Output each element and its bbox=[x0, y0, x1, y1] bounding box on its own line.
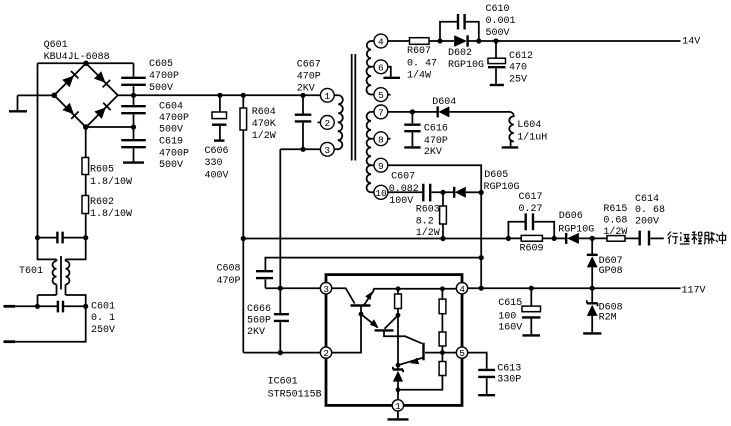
diode D605 bbox=[453, 187, 455, 198]
capacitor C667 bbox=[302, 95, 304, 113]
ground under pin1 bbox=[397, 411, 399, 418]
svg-text:C612: C612 bbox=[509, 51, 533, 62]
wire rail y238 bbox=[243, 238, 508, 240]
ground at pin 6 bbox=[388, 67, 391, 77]
svg-text:470: 470 bbox=[509, 63, 527, 74]
node C616 bbox=[410, 109, 415, 114]
diode D602 bbox=[454, 35, 467, 46]
svg-text:3: 3 bbox=[323, 284, 329, 295]
svg-text:C667: C667 bbox=[297, 60, 321, 71]
node D605 right bbox=[479, 190, 484, 195]
node C667 bottom bbox=[300, 147, 305, 152]
T601 core line bbox=[60, 256, 62, 290]
wire R615 to C614 bbox=[625, 237, 639, 239]
wire pin7 line bbox=[388, 111, 438, 113]
wire D602 to node bbox=[468, 40, 496, 42]
svg-text:L604: L604 bbox=[517, 120, 541, 131]
bridge rectifier Q601 frame bbox=[54, 63, 118, 127]
transistor Q1 bbox=[332, 288, 355, 303]
svg-text:C666: C666 bbox=[247, 304, 271, 315]
pin 5 bbox=[456, 347, 467, 358]
diode D606 bbox=[565, 233, 567, 244]
svg-text:2KV: 2KV bbox=[247, 327, 265, 338]
svg-text:Q601: Q601 bbox=[44, 40, 68, 51]
glyph 程 bbox=[692, 232, 703, 244]
svg-text:C619: C619 bbox=[159, 137, 183, 148]
capacitor C608 bbox=[256, 271, 273, 278]
svg-text:RGP10G: RGP10G bbox=[484, 182, 520, 193]
transistor Q2 bbox=[375, 329, 394, 331]
capacitor C619 bbox=[133, 127, 135, 139]
transformer secondary winding 7-8-9-10 bbox=[367, 112, 375, 139]
IC resistors Rb chain bbox=[441, 289, 443, 299]
wire pin9 line bbox=[388, 165, 482, 192]
svg-text:2: 2 bbox=[323, 348, 329, 359]
node C605/C604 bbox=[131, 93, 136, 98]
inductor L604 bbox=[509, 112, 514, 146]
pin 2 bbox=[318, 121, 321, 123]
resistor R604 bbox=[242, 95, 244, 108]
capacitor C607 bbox=[423, 184, 430, 202]
wire R609 to D606 bbox=[554, 237, 566, 239]
svg-text:R603: R603 bbox=[416, 204, 440, 215]
svg-text:4700P: 4700P bbox=[159, 113, 189, 124]
resistor R615 bbox=[607, 236, 625, 242]
svg-text:1/1uH: 1/1uH bbox=[517, 132, 547, 144]
wire bridge bottom to R605 bbox=[85, 127, 87, 158]
svg-text:R604: R604 bbox=[252, 107, 276, 118]
wire 117V rail bbox=[468, 287, 681, 289]
transistor Q3 bbox=[422, 343, 424, 361]
svg-text:400V: 400V bbox=[205, 171, 229, 182]
svg-text:500V: 500V bbox=[486, 28, 510, 39]
svg-text:R607: R607 bbox=[407, 46, 431, 57]
svg-text:1/2W: 1/2W bbox=[603, 226, 627, 238]
svg-text:C615: C615 bbox=[498, 298, 522, 309]
resistor R609 bbox=[521, 235, 542, 241]
glyph 冲 bbox=[716, 232, 726, 245]
svg-text:100: 100 bbox=[498, 311, 516, 322]
svg-text:D602: D602 bbox=[448, 48, 472, 59]
svg-text:0.27: 0.27 bbox=[519, 204, 543, 215]
svg-text:470P: 470P bbox=[424, 136, 448, 147]
svg-text:5: 5 bbox=[459, 348, 465, 359]
svg-text:D604: D604 bbox=[432, 97, 456, 108]
svg-text:2KV: 2KV bbox=[424, 147, 442, 158]
svg-text:470K: 470K bbox=[252, 119, 276, 130]
svg-text:R605: R605 bbox=[90, 165, 114, 176]
svg-text:6: 6 bbox=[378, 62, 384, 73]
wire R604 down to rail238 bbox=[242, 130, 244, 239]
node x280 pin2 line bbox=[278, 350, 283, 355]
svg-text:1/2W: 1/2W bbox=[416, 227, 440, 239]
wire R607 to D602 bbox=[429, 40, 454, 42]
capacitor C605 bbox=[133, 63, 135, 76]
node x481 on 117V bbox=[479, 286, 484, 291]
svg-text:0. 68: 0. 68 bbox=[635, 205, 665, 216]
pin 8 bbox=[374, 132, 388, 146]
wire bridge bottom to cap column bbox=[86, 126, 134, 128]
wire x481 vertical bbox=[480, 193, 482, 289]
svg-text:C616: C616 bbox=[424, 124, 448, 135]
svg-text:4: 4 bbox=[459, 284, 465, 295]
svg-text:8.2: 8.2 bbox=[416, 216, 434, 227]
wire R605 to R602 bbox=[85, 175, 87, 196]
svg-text:7: 7 bbox=[378, 108, 384, 119]
svg-text:T601: T601 bbox=[19, 266, 43, 277]
transformer primary winding pins 1-3 bbox=[334, 95, 343, 122]
svg-text:RGP10G: RGP10G bbox=[448, 60, 484, 71]
svg-text:0. 47: 0. 47 bbox=[407, 58, 437, 69]
capacitor C666 bbox=[279, 288, 281, 313]
diode D607 bbox=[591, 238, 593, 254]
capacitor C612 electrolytic bbox=[495, 41, 497, 58]
pin 4 bbox=[456, 283, 467, 294]
svg-text:5: 5 bbox=[378, 90, 384, 101]
svg-text:0.68: 0.68 bbox=[603, 215, 627, 226]
capacitor C615 electrolytic bbox=[530, 288, 532, 306]
pin 9 bbox=[374, 158, 388, 172]
resistor R603 bbox=[442, 192, 444, 206]
IC internal zener bbox=[397, 365, 399, 369]
wire D604 to L604 bbox=[449, 111, 509, 113]
pin 3 bbox=[320, 142, 334, 156]
wire Q1 emitter to pin2 bbox=[332, 314, 361, 353]
node D607 top bbox=[590, 236, 595, 241]
wire main rail y95 bbox=[134, 94, 321, 96]
svg-text:250V: 250V bbox=[91, 325, 115, 336]
transformer T601 common-mode choke bbox=[53, 259, 57, 295]
label 行逆程脉冲 (CJK pseudo-glyphs) bbox=[668, 232, 726, 245]
pin 1 bbox=[320, 88, 334, 102]
wire pin4 to R607 bbox=[388, 40, 410, 42]
zener diode D608 bbox=[591, 288, 593, 302]
svg-text:IC601: IC601 bbox=[268, 377, 298, 388]
svg-text:C614: C614 bbox=[635, 194, 659, 205]
svg-text:C617: C617 bbox=[519, 192, 543, 203]
IC601 body bbox=[326, 275, 462, 406]
wire x243 down to pin2 line bbox=[242, 239, 244, 353]
svg-text:330P: 330P bbox=[497, 375, 521, 386]
node C612 bbox=[493, 38, 498, 43]
svg-text:C604: C604 bbox=[159, 102, 183, 113]
AC input stub top bbox=[4, 305, 16, 308]
svg-text:0.001: 0.001 bbox=[486, 16, 516, 27]
svg-text:C608: C608 bbox=[217, 264, 241, 275]
IC resistor Ra bbox=[397, 289, 399, 294]
transformer core bbox=[352, 54, 356, 161]
svg-text:1/2W: 1/2W bbox=[252, 130, 276, 142]
junction dots C601 line bbox=[35, 304, 40, 309]
svg-text:R602: R602 bbox=[90, 197, 114, 208]
svg-text:160V: 160V bbox=[498, 323, 522, 334]
wire pin2 external line bbox=[243, 352, 320, 354]
bridge diode bottom-right bbox=[94, 103, 110, 119]
svg-text:25V: 25V bbox=[509, 75, 527, 86]
wire pin10 to C607 bbox=[388, 191, 422, 193]
glyph 脉 bbox=[704, 232, 715, 245]
svg-text:470P: 470P bbox=[217, 276, 241, 287]
bridge junction dots bbox=[83, 61, 89, 67]
svg-text:KBU4JL-6088: KBU4JL-6088 bbox=[44, 52, 110, 63]
node C615 bbox=[529, 286, 534, 291]
wire AC top to C601 bbox=[15, 305, 57, 307]
svg-text:3: 3 bbox=[324, 145, 330, 156]
svg-text:C607: C607 bbox=[391, 171, 415, 182]
svg-text:1: 1 bbox=[324, 91, 330, 102]
pin 10 bbox=[374, 185, 388, 199]
svg-text:100V: 100V bbox=[389, 196, 413, 207]
svg-text:1/4W: 1/4W bbox=[407, 69, 431, 81]
svg-text:RGP10G: RGP10G bbox=[558, 225, 594, 236]
glyph 行 bbox=[668, 232, 679, 244]
svg-text:C605: C605 bbox=[149, 59, 173, 70]
resistor R602 bbox=[82, 196, 89, 214]
svg-text:14V: 14V bbox=[682, 37, 700, 48]
svg-text:117V: 117V bbox=[682, 286, 706, 297]
svg-text:2: 2 bbox=[324, 118, 330, 129]
svg-text:D606: D606 bbox=[559, 211, 583, 222]
svg-text:9: 9 bbox=[378, 161, 384, 172]
node x280 pin3 line bbox=[278, 286, 283, 291]
svg-text:C610: C610 bbox=[486, 4, 510, 15]
wire Ra to Q2 base bbox=[385, 315, 399, 329]
bridge diode bottom-left bbox=[62, 103, 78, 119]
capacitor C610 arch bbox=[440, 22, 479, 41]
svg-text:200V: 200V bbox=[635, 216, 659, 227]
node R603 top bbox=[440, 190, 445, 195]
pin 5 bbox=[374, 88, 388, 102]
wire x280 vertical bbox=[279, 149, 281, 288]
node C667 top bbox=[300, 93, 305, 98]
capacitor C613 bbox=[478, 370, 495, 377]
capacitor C606 electrolytic bbox=[219, 95, 221, 112]
svg-text:2KV: 2KV bbox=[297, 83, 315, 94]
wire Ra vertical to zener bbox=[397, 315, 399, 365]
node C606 bbox=[217, 93, 222, 98]
svg-text:R615: R615 bbox=[603, 204, 627, 215]
svg-text:STR50115B: STR50115B bbox=[268, 389, 322, 400]
svg-text:C601: C601 bbox=[91, 302, 115, 313]
svg-text:GP08: GP08 bbox=[599, 266, 623, 277]
node R604 top bbox=[241, 93, 246, 98]
wire right column x85 T601 bbox=[85, 214, 87, 238]
pin 4 bbox=[374, 34, 388, 48]
svg-text:C606: C606 bbox=[205, 146, 229, 157]
bridge diode top-right bbox=[94, 71, 110, 87]
pin 3 bbox=[320, 283, 331, 294]
transformer secondary winding 4-6-5 bbox=[367, 41, 375, 67]
svg-text:D605: D605 bbox=[484, 170, 508, 181]
node D608 bbox=[590, 286, 595, 291]
svg-text:470P: 470P bbox=[297, 72, 321, 83]
pin 6 bbox=[374, 60, 388, 74]
wire y257 C608 top line bbox=[265, 258, 481, 271]
svg-text:4700P: 4700P bbox=[149, 71, 179, 82]
wire pin3 line to x280 bbox=[280, 148, 320, 150]
node D602 anode / C610 left bbox=[437, 38, 442, 43]
svg-text:500V: 500V bbox=[159, 125, 183, 136]
pin 7 bbox=[374, 105, 388, 119]
bridge diode top-left bbox=[62, 71, 78, 87]
svg-text:330: 330 bbox=[205, 158, 223, 169]
svg-text:10: 10 bbox=[375, 188, 387, 199]
svg-text:500V: 500V bbox=[159, 160, 183, 171]
resistor R605 bbox=[82, 158, 89, 175]
capacitor C616 bbox=[411, 112, 413, 124]
capacitor C601 bbox=[58, 301, 63, 313]
svg-text:8: 8 bbox=[378, 134, 384, 145]
IC internal top rail bbox=[374, 288, 457, 290]
wire top rail bbox=[38, 62, 134, 64]
capacitor C614 bbox=[640, 231, 649, 246]
wire pin3 external line bbox=[265, 287, 320, 289]
wire D606 to node bbox=[579, 237, 607, 239]
svg-text:4700P: 4700P bbox=[159, 149, 189, 160]
pin 2 bbox=[320, 347, 331, 358]
AC input stub bottom bbox=[4, 340, 16, 343]
pin 1 bbox=[392, 400, 403, 411]
wire 14V line bbox=[496, 40, 681, 42]
svg-text:R609: R609 bbox=[520, 243, 544, 254]
svg-text:C613: C613 bbox=[497, 364, 521, 375]
svg-text:4: 4 bbox=[378, 37, 384, 48]
svg-text:1.8/10W: 1.8/10W bbox=[90, 176, 132, 188]
capacitor C604 bbox=[133, 95, 135, 105]
node C604/C619 bbox=[131, 124, 136, 129]
svg-text:560P: 560P bbox=[247, 316, 271, 327]
wire ground to bridge left bbox=[18, 94, 55, 96]
wire AC bottom line bbox=[15, 306, 86, 341]
resistor R607 bbox=[410, 38, 430, 45]
svg-text:0. 1: 0. 1 bbox=[91, 313, 115, 324]
wire left rail x37 bbox=[37, 63, 39, 238]
capacitor filter top of T601 bbox=[57, 232, 62, 244]
wire bridge right to cap column bbox=[118, 94, 134, 96]
ground symbol top-left bbox=[17, 95, 19, 110]
svg-text:1.8/10W: 1.8/10W bbox=[90, 208, 132, 220]
svg-text:0.082: 0.082 bbox=[389, 184, 419, 195]
glyph 逆 bbox=[680, 232, 690, 244]
svg-text:R2M: R2M bbox=[599, 313, 617, 324]
svg-text:500V: 500V bbox=[149, 83, 173, 94]
diode D604 bbox=[437, 106, 439, 117]
wire pin5 to C613 bbox=[468, 353, 487, 369]
capacitor C617 arch bbox=[508, 222, 554, 239]
node y257/x481 bbox=[479, 255, 484, 260]
svg-text:1: 1 bbox=[395, 401, 401, 412]
